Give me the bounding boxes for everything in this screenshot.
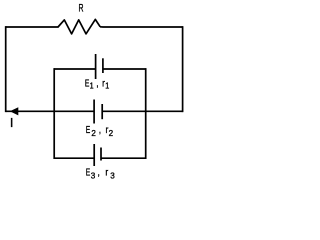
svg-text:3: 3 xyxy=(110,170,115,180)
battery E2 short plate xyxy=(101,104,103,119)
svg-text:I: I xyxy=(10,116,13,130)
label E3, r3 xyxy=(86,166,115,180)
label E2, r2 xyxy=(86,124,114,139)
label E1, r1 xyxy=(85,77,109,90)
current arrow on middle wire xyxy=(10,107,18,115)
wire: E1 branch, left segment xyxy=(54,68,95,70)
wire: right branch vertical (junction with middle wire at x=145.7) xyxy=(145,68,147,159)
wire: E3 branch, left segment xyxy=(54,157,94,159)
wire: outer top, right of resistor R xyxy=(100,26,183,28)
battery E3 short plate xyxy=(100,148,102,161)
svg-text:1: 1 xyxy=(105,81,109,91)
resistor R (zigzag) xyxy=(58,19,100,34)
svg-text:1: 1 xyxy=(90,81,94,91)
svg-text:E: E xyxy=(86,166,91,178)
svg-text:,: , xyxy=(96,78,98,90)
wire: E3 branch, right segment xyxy=(101,157,146,159)
wire: outer left side xyxy=(5,26,7,112)
wire: E1 branch, right segment xyxy=(103,68,146,70)
svg-text:R: R xyxy=(79,2,84,14)
svg-text:2: 2 xyxy=(109,128,114,138)
wire: outer top, left of resistor R xyxy=(6,26,59,28)
svg-text:2: 2 xyxy=(91,128,96,138)
wire: middle horizontal, from battery E2 long plate left to outer left side xyxy=(6,110,94,112)
wire: middle horizontal, from battery E2 short plate right to outer right side xyxy=(102,110,182,112)
svg-text:,: , xyxy=(98,167,100,179)
battery E1 long plate xyxy=(95,54,97,79)
svg-text:,: , xyxy=(99,124,101,136)
svg-text:E: E xyxy=(86,124,91,136)
battery E3 long plate xyxy=(93,144,95,166)
wire: outer right side xyxy=(182,26,184,112)
wire: left branch vertical (junction with middle wire at x=54.2) xyxy=(53,68,55,159)
battery E2 long plate xyxy=(93,100,95,124)
svg-text:r: r xyxy=(105,167,108,179)
battery E1 short plate xyxy=(102,58,104,73)
svg-text:3: 3 xyxy=(91,170,96,180)
